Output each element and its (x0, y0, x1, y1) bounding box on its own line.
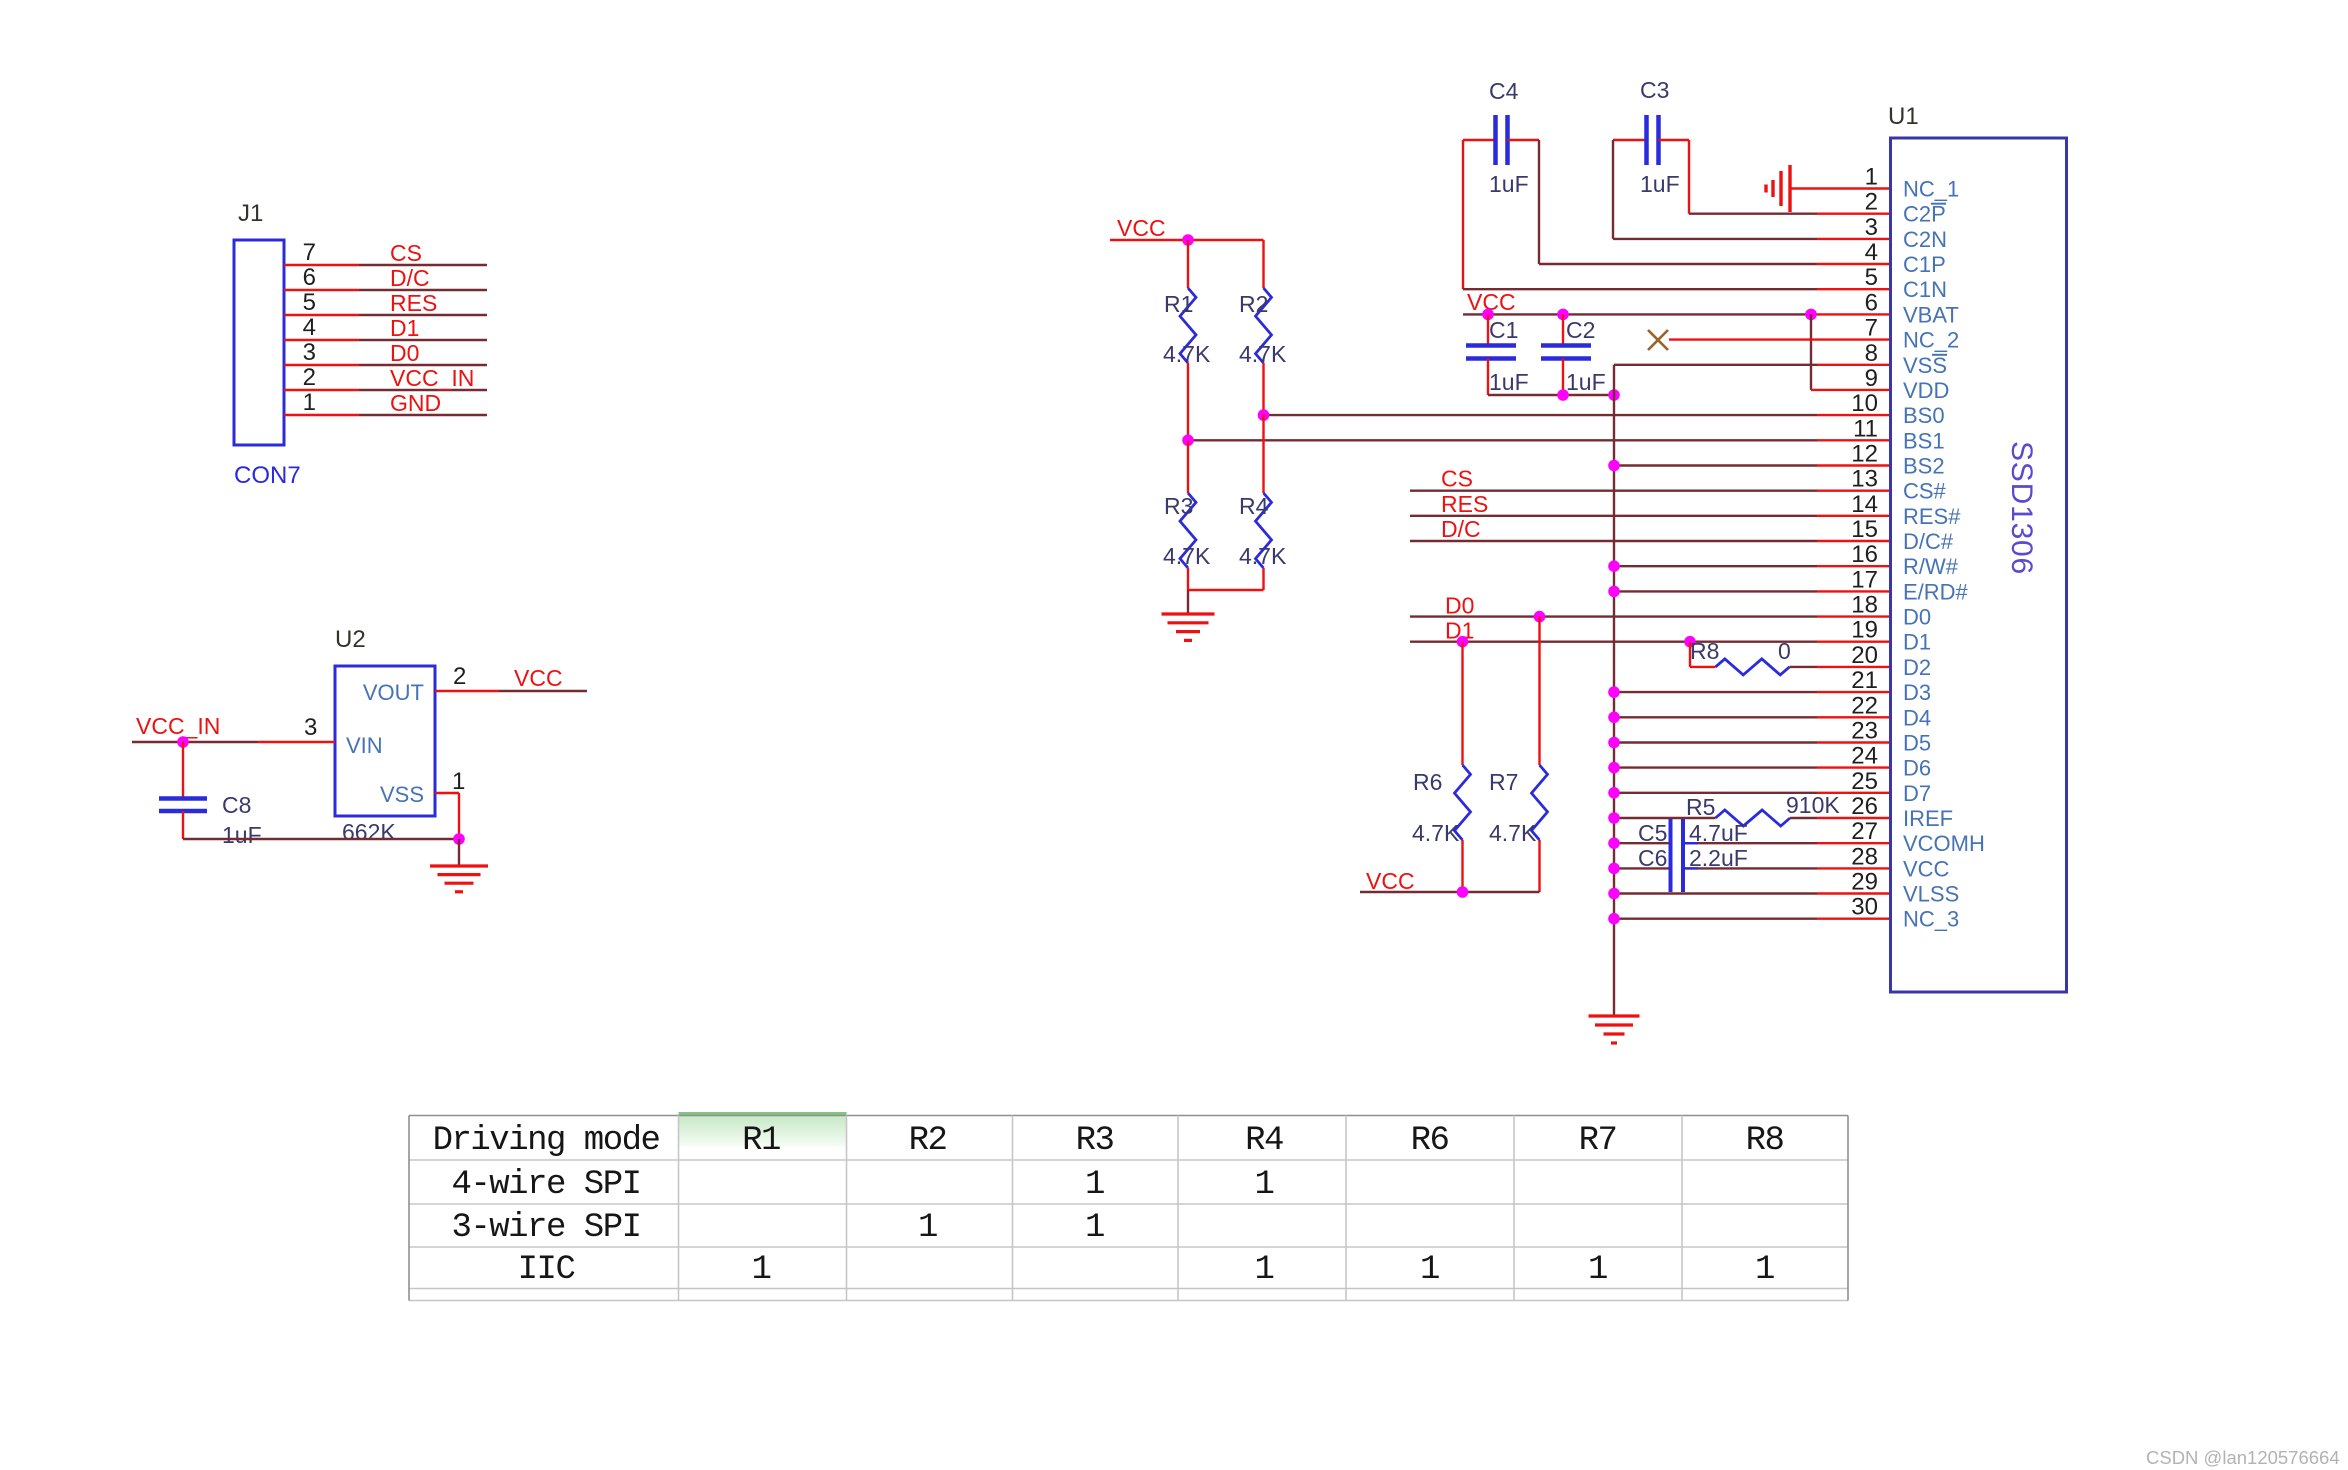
ground (U1 pin 1, sideways) (1766, 165, 1790, 212)
svg-text:VCC_IN: VCC_IN (136, 713, 220, 739)
svg-text:RES: RES (390, 290, 437, 316)
svg-text:1uF: 1uF (1489, 369, 1529, 395)
junction VCC / C1 (1482, 309, 1494, 321)
pin label C2P (U1 pin 2) (1903, 202, 1946, 227)
svg-text:R1: R1 (1164, 291, 1193, 317)
junction bus / NC_3 (1608, 913, 1620, 925)
refdes label C2 (1566, 317, 1595, 343)
junction bus / D4 (1608, 712, 1620, 724)
pin number 7 (U1) (1865, 315, 1878, 342)
net label D1 (1445, 618, 1474, 644)
pin label VCOMH (U1 pin 27) (1903, 831, 1985, 856)
svg-text:BS2: BS2 (1903, 454, 1945, 479)
pin number 15 (U1) (1851, 516, 1878, 543)
table grid (driving mode table) (409, 1113, 1848, 1301)
svg-text:R4: R4 (1245, 1122, 1283, 1160)
svg-text:IREF: IREF (1903, 806, 1953, 831)
refdes U2 (335, 626, 366, 653)
pin number 16 (U1) (1851, 541, 1878, 568)
junction bus / D6 (1608, 762, 1620, 774)
svg-text:26: 26 (1851, 793, 1878, 820)
value label CON7 (234, 462, 301, 489)
capacitor C2 (1541, 314, 1591, 395)
value label 1uF (C4) (1489, 171, 1529, 197)
junction bus / C1-C2 ground wire (1608, 389, 1620, 401)
svg-text:2.2uF: 2.2uF (1689, 845, 1748, 871)
svg-text:D2: D2 (1903, 655, 1931, 680)
svg-text:Driving mode: Driving mode (433, 1122, 660, 1160)
svg-text:6: 6 (1865, 289, 1878, 316)
refdes label C6 (1638, 845, 1667, 871)
pin label NC_1 (U1 pin 1) (1903, 177, 1959, 202)
wire D/C net (to U1 pin 15) (1410, 540, 1891, 542)
wire D0 net (to U1 pin 18) (1410, 615, 1891, 617)
refdes label C3 (1640, 77, 1669, 103)
pin number 3 (U2 VIN) (304, 714, 317, 741)
svg-text:4.7K: 4.7K (1412, 820, 1460, 846)
svg-text:VSS: VSS (1903, 353, 1947, 378)
junction C2 / ground wire (1557, 389, 1569, 401)
pin label BS0 (U1 pin 10) (1903, 403, 1945, 428)
resistor R6 (1455, 642, 1471, 892)
svg-text:VCC: VCC (514, 665, 563, 691)
svg-text:CS: CS (1441, 466, 1473, 492)
junction BS0 / R2-R4 (1258, 409, 1270, 421)
table row IIC (518, 1251, 1774, 1289)
svg-text:GND: GND (390, 390, 441, 416)
refdes label R4 (1239, 493, 1269, 519)
junction D1 / R6 (1457, 636, 1469, 648)
svg-text:CSDN @lan120576664: CSDN @lan120576664 (2146, 1447, 2340, 1468)
ground (U2) (430, 866, 488, 892)
svg-text:C1P: C1P (1903, 252, 1946, 277)
wire NC_3 (bus to U1 pin 30) (1614, 918, 1891, 920)
pin label VLSS (U1 pin 29) (1903, 882, 1959, 907)
pin number 6 (U1) (1865, 289, 1878, 316)
wire D4 (bus to U1 pin 22) (1614, 716, 1891, 718)
wire ground drop (U2) (458, 839, 460, 866)
svg-text:1: 1 (1255, 1166, 1274, 1204)
svg-text:VIN: VIN (346, 733, 383, 758)
svg-text:2: 2 (1865, 189, 1878, 216)
svg-text:D7: D7 (1903, 781, 1931, 806)
junction VCC / R1 (1182, 234, 1194, 246)
wire ground drop (R3/R4) (1187, 590, 1189, 614)
net label D1 (J1) (390, 315, 419, 341)
pin label D/C# (U1 pin 15) (1903, 529, 1954, 554)
junction D0 / R7 (1534, 611, 1546, 623)
pin number 14 (U1) (1851, 491, 1878, 518)
wire D6 (bus to U1 pin 24) (1614, 766, 1891, 768)
resistor R3 (1180, 441, 1196, 590)
pin label D0 (U1 pin 18) (1903, 605, 1931, 630)
value label 1uF (C8) (222, 822, 262, 848)
svg-text:D4: D4 (1903, 705, 1931, 730)
wire VCOMH (bus to U1 pin 27) (1614, 842, 1891, 844)
svg-text:R/W#: R/W# (1903, 554, 1959, 579)
wire U1 pin 1 (NC_1 to ground) (1790, 187, 1891, 189)
wire J1 pin 2 (VCC_IN net) (284, 389, 487, 391)
svg-text:NC_1: NC_1 (1903, 177, 1959, 202)
svg-text:R5: R5 (1686, 794, 1715, 820)
net label VCC_IN (J1) (390, 365, 474, 391)
pin number 18 (U1) (1851, 592, 1878, 619)
svg-text:CS: CS (390, 240, 422, 266)
svg-text:3-wire SPI: 3-wire SPI (451, 1209, 640, 1247)
value label 662K (U2) (342, 819, 396, 845)
pin number 21 (U1) (1851, 667, 1878, 694)
pin label D1 (U1 pin 19) (1903, 630, 1931, 655)
svg-text:C6: C6 (1638, 845, 1667, 871)
connector J1 body (234, 240, 284, 445)
value label 1uF (C2) (1566, 369, 1606, 395)
pin number 20 (U1) (1851, 642, 1878, 669)
svg-text:8: 8 (1865, 340, 1878, 367)
pin label RES# (U1 pin 14) (1903, 504, 1961, 529)
refdes label C4 (1489, 78, 1519, 104)
svg-text:7: 7 (1865, 315, 1878, 342)
svg-text:15: 15 (1851, 516, 1878, 543)
pin label VSS (U2) (380, 782, 424, 807)
pin label VBAT (U1 pin 6) (1903, 302, 1959, 327)
svg-text:4.7uF: 4.7uF (1689, 820, 1748, 846)
svg-text:C1N: C1N (1903, 277, 1947, 302)
table row 3-wire SPI (451, 1209, 1104, 1247)
svg-text:D0: D0 (1903, 605, 1931, 630)
net label CS (1441, 466, 1473, 492)
svg-text:U2: U2 (335, 626, 366, 653)
pin number 2 (J1) (303, 364, 316, 391)
refdes J1 (238, 200, 263, 227)
junction bus / VCC pin28 (1608, 863, 1620, 875)
svg-text:R2: R2 (909, 1122, 947, 1160)
refdes label R7 (1489, 769, 1518, 795)
pin number 2 (U1) (1865, 189, 1878, 216)
svg-text:J1: J1 (238, 200, 263, 227)
svg-text:BS0: BS0 (1903, 403, 1945, 428)
junction bus / D5 (1608, 737, 1620, 749)
pin number 13 (U1) (1851, 466, 1878, 493)
svg-text:1: 1 (1420, 1251, 1439, 1289)
svg-text:16: 16 (1851, 541, 1878, 568)
svg-text:18: 18 (1851, 592, 1878, 619)
wire R/W# (bus to U1 pin 16) (1614, 565, 1891, 567)
svg-text:R3: R3 (1164, 493, 1193, 519)
svg-text:D6: D6 (1903, 756, 1931, 781)
wire VLSS (bus to U1 pin 29) (1614, 892, 1891, 894)
svg-text:RES: RES (1441, 491, 1488, 517)
pin label D6 (U1 pin 24) (1903, 756, 1931, 781)
svg-text:25: 25 (1851, 768, 1878, 795)
wire C2N (C3 to U1 pin 3) (1613, 140, 1891, 239)
svg-text:R1: R1 (742, 1122, 780, 1160)
svg-text:C2P: C2P (1903, 202, 1946, 227)
wire VCC28 (bus to U1 pin 28) (1614, 867, 1891, 869)
net label VCC (C1/C2) (1467, 289, 1516, 315)
value label 4.7K (R4) (1239, 543, 1287, 569)
svg-text:R7: R7 (1489, 769, 1518, 795)
junction bus / R5 (IREF) (1608, 812, 1620, 824)
svg-text:1: 1 (1755, 1251, 1774, 1289)
pin number 1 (U1) (1865, 164, 1878, 191)
pin number 30 (U1) (1851, 894, 1878, 921)
pin number 5 (J1) (303, 289, 316, 316)
svg-text:D0: D0 (1445, 593, 1474, 619)
resistor R5 (1614, 810, 1891, 826)
svg-text:1uF: 1uF (1640, 171, 1680, 197)
svg-text:E/RD#: E/RD# (1903, 579, 1969, 604)
wire D5 (bus to U1 pin 23) (1614, 741, 1891, 743)
svg-text:1uF: 1uF (222, 822, 262, 848)
pin number 9 (U1) (1865, 365, 1878, 392)
svg-text:1: 1 (1085, 1209, 1104, 1247)
wire BS2 (bus to U1 pin 12) (1614, 464, 1891, 466)
svg-text:D/C#: D/C# (1903, 529, 1954, 554)
wire J1 pin 6 (D/C net) (284, 289, 487, 291)
svg-text:NC_2: NC_2 (1903, 328, 1959, 353)
pin number 28 (U1) (1851, 843, 1878, 870)
pin label BS1 (U1 pin 11) (1903, 428, 1945, 453)
svg-text:4.7K: 4.7K (1489, 820, 1537, 846)
pin number 22 (U1) (1851, 692, 1878, 719)
svg-text:4.7K: 4.7K (1163, 341, 1211, 367)
junction bus / R/W# (1608, 560, 1620, 572)
value label 4.7K (R3) (1163, 543, 1211, 569)
value label 4.7K (R6) (1412, 820, 1460, 846)
wire C1P (C4 to U1 pin 4) (1539, 140, 1891, 264)
pin label D7 (U1 pin 25) (1903, 781, 1931, 806)
svg-text:4: 4 (303, 314, 316, 341)
pin number 3 (J1) (303, 339, 316, 366)
svg-text:VCC: VCC (1366, 868, 1415, 894)
net label GND (J1) (390, 390, 441, 416)
wire C1N (C4 to U1 pin 5) (1463, 140, 1891, 289)
svg-text:D1: D1 (390, 315, 419, 341)
svg-text:SSD1306: SSD1306 (2005, 441, 2038, 575)
svg-text:7: 7 (303, 239, 316, 266)
net label VCC_IN (U2) (136, 713, 220, 739)
junction BS1 / R1-R3 (1182, 435, 1194, 447)
svg-text:21: 21 (1851, 667, 1878, 694)
resistor R1 (1180, 240, 1196, 441)
pin number 10 (U1) (1851, 390, 1878, 417)
svg-text:D0: D0 (390, 340, 419, 366)
pin number 19 (U1) (1851, 617, 1878, 644)
junction bus / D3 (1608, 686, 1620, 698)
pin label C1P (U1 pin 4) (1903, 252, 1946, 277)
refdes label C1 (1489, 317, 1518, 343)
net label RES (J1) (390, 290, 437, 316)
resistor R8 (1690, 642, 1891, 675)
svg-text:1: 1 (1865, 164, 1878, 191)
pin number 29 (U1) (1851, 869, 1878, 896)
svg-text:30: 30 (1851, 894, 1878, 921)
junction bus / VCOMH (1608, 837, 1620, 849)
pin number 6 (J1) (303, 264, 316, 291)
capacitor C8 (159, 742, 207, 839)
svg-text:1: 1 (1255, 1251, 1274, 1289)
svg-text:1: 1 (918, 1209, 937, 1247)
svg-text:VOUT: VOUT (363, 680, 424, 705)
net label D/C (1441, 516, 1481, 542)
wire VCC (U2 VOUT out) (435, 690, 587, 692)
svg-text:1uF: 1uF (1489, 171, 1529, 197)
capacitor C5 (1671, 819, 1699, 892)
pin number 26 (U1) (1851, 793, 1878, 820)
pin label BS2 (U1 pin 12) (1903, 454, 1945, 479)
capacitor C4 (1463, 115, 1539, 165)
pin label C2N (U1 pin 3) (1903, 227, 1947, 252)
svg-text:D1: D1 (1903, 630, 1931, 655)
pin number 24 (U1) (1851, 743, 1878, 770)
wire J1 pin 4 (D1 net) (284, 339, 487, 341)
pin label CS# (U1 pin 13) (1903, 479, 1947, 504)
svg-text:12: 12 (1851, 441, 1878, 468)
svg-text:R8: R8 (1690, 638, 1719, 664)
pin number 11 (U1) (1853, 415, 1878, 442)
pin number 5 (U1) (1865, 264, 1878, 291)
net label RES (1441, 491, 1488, 517)
wire C8 bottom to U2 VSS (183, 838, 459, 840)
wire C1/C2 ground to bus (1488, 394, 1614, 396)
wire CS net (to U1 pin 13) (1410, 490, 1891, 492)
svg-text:23: 23 (1851, 718, 1878, 745)
pin label VSS (U1 pin 8) (1903, 353, 1947, 378)
svg-text:4.7K: 4.7K (1239, 341, 1287, 367)
svg-text:D/C: D/C (1441, 516, 1481, 542)
svg-text:NC_3: NC_3 (1903, 907, 1959, 932)
net label VCC (U2 output) (514, 665, 563, 691)
svg-text:VCOMH: VCOMH (1903, 831, 1985, 856)
IC U1 body (1891, 138, 2067, 992)
pin number 17 (U1) (1851, 566, 1878, 593)
svg-text:C1: C1 (1489, 317, 1518, 343)
pin label VCC (U1 pin 28) (1903, 856, 1950, 881)
value label 4.7K (R2) (1239, 341, 1287, 367)
refdes label R1 (1164, 291, 1193, 317)
svg-text:1: 1 (1588, 1251, 1607, 1289)
svg-text:5: 5 (303, 289, 316, 316)
wire D7 (bus to U1 pin 25) (1614, 792, 1891, 794)
junction VCC_IN / C8 (177, 736, 189, 748)
wire U1 pin 8 VSS to bus (1614, 364, 1891, 366)
net label VCC (R1/R2) (1117, 215, 1166, 241)
svg-text:R6: R6 (1411, 1122, 1449, 1160)
pin number 7 (J1) (303, 239, 316, 266)
svg-text:14: 14 (1851, 491, 1878, 518)
junction VCC / R6 (1457, 886, 1469, 898)
pin label VIN (U2) (346, 733, 383, 758)
svg-text:28: 28 (1851, 843, 1878, 870)
svg-text:D5: D5 (1903, 731, 1931, 756)
junction bus / E/RD# (1608, 586, 1620, 598)
value label 4.7uF (C5) (1689, 820, 1748, 846)
pin label D5 (U1 pin 23) (1903, 731, 1931, 756)
pin number 4 (U1) (1865, 239, 1878, 266)
svg-text:662K: 662K (342, 819, 396, 845)
wire VDD branch (VBAT to U1 pin 9) (1811, 314, 1891, 390)
svg-text:CON7: CON7 (234, 462, 301, 489)
svg-text:RES#: RES# (1903, 504, 1961, 529)
resistor R4 (1256, 414, 1272, 590)
wire J1 pin 3 (D0 net) (284, 364, 487, 366)
svg-text:VSS: VSS (380, 782, 424, 807)
refdes U1 (1888, 103, 1919, 130)
part name SSD1306 (vertical) (2005, 441, 2038, 575)
pin label D3 (U1 pin 21) (1903, 680, 1931, 705)
svg-text:R6: R6 (1413, 769, 1442, 795)
refdes label R8 (1690, 638, 1719, 664)
svg-text:1: 1 (752, 1251, 771, 1289)
net label D0 (1445, 593, 1474, 619)
value label 4.7K (R1) (1163, 341, 1211, 367)
svg-text:29: 29 (1851, 869, 1878, 896)
svg-text:3: 3 (303, 339, 316, 366)
svg-text:VBAT: VBAT (1903, 302, 1959, 327)
pin label C1N (U1 pin 5) (1903, 277, 1947, 302)
pin number 27 (U1) (1851, 818, 1878, 845)
value label 1uF (C1) (1489, 369, 1529, 395)
pin label D4 (U1 pin 22) (1903, 705, 1931, 730)
svg-text:D3: D3 (1903, 680, 1931, 705)
svg-text:CS#: CS# (1903, 479, 1947, 504)
svg-text:24: 24 (1851, 743, 1878, 770)
svg-text:4: 4 (1865, 239, 1878, 266)
wire VCC (R1/R2 top) (1110, 239, 1264, 241)
svg-text:R3: R3 (1076, 1122, 1114, 1160)
value label 0 (R8) (1778, 638, 1791, 664)
svg-text:13: 13 (1851, 466, 1878, 493)
value label 2.2uF (C6) (1689, 845, 1748, 871)
pin label D2 (U1 pin 20) (1903, 655, 1931, 680)
refdes label C8 (222, 792, 251, 818)
value label 910K (R5) (1786, 792, 1840, 818)
wire BS1 (R1 to U1 pin 11) (1188, 439, 1891, 441)
capacitor C6 (1683, 855, 1698, 892)
value label 4.7K (R7) (1489, 820, 1537, 846)
pin number 12 (U1) (1851, 441, 1878, 468)
pin number 4 (J1) (303, 314, 316, 341)
no-connect X (U1 pin 7 NC_2) (1648, 330, 1668, 350)
resistor R7 (1532, 617, 1548, 892)
svg-text:3: 3 (304, 714, 317, 741)
svg-text:4.7K: 4.7K (1163, 543, 1211, 569)
refdes label R3 (1164, 493, 1193, 519)
svg-text:910K: 910K (1786, 792, 1840, 818)
svg-text:10: 10 (1851, 390, 1878, 417)
wire VCC (R6/R7 bottom) (1360, 891, 1540, 893)
refdes label R6 (1413, 769, 1442, 795)
pin label E/RD# (U1 pin 17) (1903, 579, 1969, 604)
svg-text:VCC_IN: VCC_IN (390, 365, 474, 391)
svg-text:R7: R7 (1579, 1122, 1617, 1160)
svg-text:IIC: IIC (518, 1251, 575, 1289)
ground (R1-R4 divider) (1162, 614, 1215, 640)
svg-text:19: 19 (1851, 617, 1878, 644)
refdes label C5 (1638, 820, 1667, 846)
pin label VDD (U1 pin 9) (1903, 378, 1949, 403)
junction VBAT / VDD branch (1805, 309, 1817, 321)
regulator U2 body (335, 666, 435, 816)
capacitor C3 (1613, 115, 1689, 165)
svg-text:VCC: VCC (1903, 856, 1950, 881)
wire R3/R4 bottom join (1188, 589, 1264, 591)
pin label IREF (U1 pin 26) (1903, 806, 1953, 831)
svg-text:BS1: BS1 (1903, 428, 1945, 453)
wire J1 pin 1 (GND net) (284, 414, 487, 416)
svg-text:C5: C5 (1638, 820, 1667, 846)
svg-text:1: 1 (303, 389, 316, 416)
